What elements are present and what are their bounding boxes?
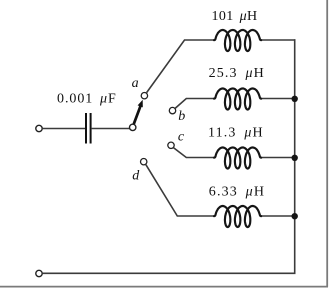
figure right border <box>326 0 328 287</box>
contact b circle <box>169 107 175 113</box>
svg-text:c: c <box>178 129 185 144</box>
wire: L1 to bus <box>260 39 296 41</box>
right bus wire <box>294 39 296 274</box>
capacitor right plate <box>90 113 92 144</box>
contact c circle <box>168 142 174 148</box>
switch wiper arm with arrowhead <box>133 104 141 125</box>
wire: capacitor to switch pivot <box>92 128 130 130</box>
bottom return wire <box>43 272 296 274</box>
svg-text:101 μH: 101 μH <box>212 9 258 24</box>
wire: contact c to inductor L3 <box>173 148 215 158</box>
junction dot node b-bus <box>292 96 298 102</box>
wire: L2 to bus <box>260 98 295 100</box>
inductor L2 25.3uH <box>214 89 261 110</box>
figure bottom border <box>0 286 328 288</box>
wire: contact b to inductor L2 <box>175 99 215 109</box>
switch pivot circle <box>130 124 136 130</box>
wire: L3 to bus <box>260 157 295 159</box>
svg-text:6.33 μH: 6.33 μH <box>209 185 265 200</box>
junction dot node c-bus <box>292 155 298 161</box>
capacitor C 0.001uF : left plate <box>85 113 87 144</box>
svg-text:b: b <box>178 109 185 124</box>
contact a circle <box>141 93 147 99</box>
svg-text:0.001 μF: 0.001 μF <box>57 92 117 107</box>
wire: L4 to bus <box>260 215 295 217</box>
wire: top-left terminal to capacitor <box>43 128 85 130</box>
svg-text:25.3 μH: 25.3 μH <box>209 66 265 81</box>
inductor L3 11.3uH <box>214 148 261 169</box>
svg-text:11.3 μH: 11.3 μH <box>208 126 264 141</box>
svg-text:a: a <box>132 76 139 91</box>
contact d circle <box>141 159 147 165</box>
wire: contact d to inductor L4 <box>146 165 216 216</box>
svg-text:d: d <box>132 168 140 183</box>
inductor L4 6.33uH <box>214 206 261 227</box>
terminal (input bottom) <box>36 270 42 276</box>
terminal (input top) <box>36 125 42 131</box>
wire: contact a to inductor L1 <box>147 40 216 93</box>
junction dot node d-bus <box>292 213 298 219</box>
inductor L1 101uH <box>214 30 261 51</box>
